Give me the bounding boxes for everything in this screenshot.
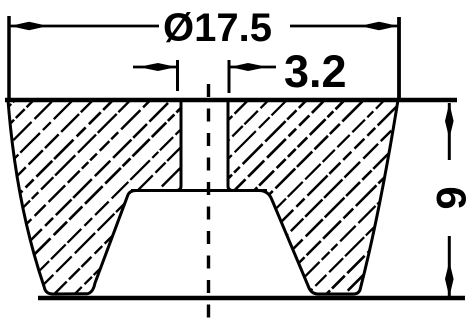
svg-text:3.2: 3.2 (284, 46, 347, 97)
svg-text:9: 9 (428, 186, 472, 209)
svg-text:Ø17.5: Ø17.5 (163, 6, 272, 50)
